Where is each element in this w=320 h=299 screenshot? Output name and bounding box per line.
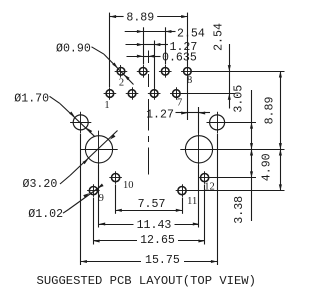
svg-text:9: 9 (99, 193, 104, 204)
extension line right hole upper (198, 107, 200, 133)
leader and label Ø1.02 (pins 9-12) (28, 183, 103, 221)
extension line pin8 column upper (187, 13, 189, 67)
leader and label Ø1.70 (post pads) (14, 92, 94, 136)
leader and label Ø3.20 (mounting holes) (23, 131, 118, 192)
extension line pin12 down (204, 185, 206, 245)
extension line pin1 column (109, 13, 111, 87)
pin 9 pad (Ø1.02) (87, 184, 100, 197)
svg-text:15.75: 15.75 (145, 254, 180, 267)
extension line mounting hole row (213, 149, 284, 151)
pin 4 pad (Ø0.90) (137, 65, 150, 78)
extension line pin11 row (187, 190, 285, 192)
dimension 12.65 (93, 234, 204, 247)
leader and label Ø0.90 (pins 1-8) (56, 42, 134, 84)
extension line left hole down (98, 165, 100, 228)
extension line right hole down (198, 165, 200, 228)
svg-text:11.43: 11.43 (137, 219, 172, 232)
extension line bottom pin row right (181, 93, 234, 95)
pin 6 pad (Ø0.90) (159, 65, 172, 78)
extension line pin12 row (209, 177, 256, 179)
dimension 2.54 top (125, 27, 205, 40)
svg-text:3.05: 3.05 (233, 85, 246, 113)
svg-text:7: 7 (177, 98, 182, 109)
pin 5 pad (Ø0.90) (148, 87, 161, 100)
left post pad (Ø1.70) (70, 112, 91, 133)
svg-text:2: 2 (119, 77, 124, 88)
dimension 15.75 (81, 254, 217, 267)
dimension 0.635 top (127, 52, 197, 65)
dimension 8.89 right (264, 71, 282, 149)
svg-text:8.89: 8.89 (126, 12, 154, 25)
dimension 3.05 right (233, 85, 254, 150)
extension line top pin row right (192, 71, 285, 73)
dimension 1.27 middle (146, 109, 210, 122)
svg-text:Ø1.02: Ø1.02 (28, 208, 63, 221)
extension line pin5 column (154, 41, 156, 89)
svg-text:SUGGESTED PCB LAYOUT(TOP VIEW): SUGGESTED PCB LAYOUT(TOP VIEW) (37, 274, 256, 288)
svg-text:7.57: 7.57 (138, 198, 166, 211)
centerline of connector (148, 51, 150, 64)
svg-text:11: 11 (187, 196, 197, 207)
dimension 2.54 right (212, 23, 231, 108)
pin 8 pad (Ø0.90) (181, 65, 194, 78)
pin 2 pad (Ø0.90) (115, 65, 128, 78)
extension line pin4 column (143, 27, 145, 64)
svg-text:8.89: 8.89 (264, 97, 277, 125)
pin 10 pad (Ø1.02) (109, 171, 122, 184)
svg-text:3.38: 3.38 (233, 196, 246, 224)
svg-text:0.635: 0.635 (162, 52, 197, 65)
dimension 7.57 (116, 198, 182, 212)
extension line right post pad (225, 122, 256, 124)
pin 7 pad (Ø0.90) (170, 87, 183, 100)
svg-text:1: 1 (104, 100, 109, 111)
svg-text:1.27: 1.27 (146, 109, 174, 122)
pin 3 pad (Ø0.90) (126, 87, 139, 100)
svg-text:10: 10 (123, 180, 134, 191)
right post pad (Ø1.70) (207, 112, 228, 133)
extension line pin6 column (165, 27, 167, 64)
svg-text:12.65: 12.65 (140, 234, 175, 247)
dimension 11.43 (99, 219, 199, 232)
svg-text:2.54: 2.54 (177, 27, 205, 40)
pin 11 pad (Ø1.02) (176, 184, 189, 197)
extension line pin11 down (182, 198, 184, 214)
extension line pin10 down (115, 185, 117, 214)
extension line pin8 column lower (187, 77, 189, 120)
right mounting hole (Ø3.20) (180, 131, 217, 168)
dimension 4.90 right (260, 149, 282, 190)
pin 12 pad (Ø1.02) (198, 171, 211, 184)
svg-text:2.54: 2.54 (212, 23, 225, 51)
extension line left post pad down (80, 134, 82, 266)
dimension 3.38 right (233, 149, 253, 223)
svg-text:Ø3.20: Ø3.20 (23, 178, 58, 191)
extension line right post pad down (217, 134, 219, 266)
dimension 8.89 top (110, 12, 187, 25)
extension line pin9 down (93, 198, 95, 245)
left mounting hole (Ø3.20) (80, 131, 117, 168)
svg-text:4.90: 4.90 (260, 153, 273, 181)
svg-text:Ø1.70: Ø1.70 (14, 92, 49, 105)
svg-text:Ø0.90: Ø0.90 (56, 42, 91, 55)
dimension 1.27 top (126, 41, 198, 54)
pin 1 pad (Ø0.90) (104, 87, 117, 100)
